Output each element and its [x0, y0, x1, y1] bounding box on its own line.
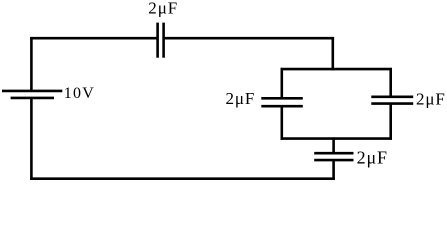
- wire bottom-cap lower (C4 to bottom wire): [332, 160, 335, 180]
- wire right branch upper: [389, 68, 392, 97]
- svg-text:10V: 10V: [64, 85, 95, 102]
- capacitor C3 2uF (right branch) bottom plate: [371, 102, 413, 105]
- capacitor C2 2uF (left branch) top plate: [261, 97, 303, 100]
- svg-text:2μF: 2μF: [148, 0, 178, 17]
- wire inner loop bottom: [281, 137, 392, 140]
- battery V1 bottom plate (short): [11, 97, 54, 100]
- wire inner loop top: [281, 68, 392, 71]
- wire bottom: [30, 177, 335, 180]
- capacitor C4 2uF (bottom) top plate: [314, 152, 353, 155]
- capacitor C4 2uF (bottom) bottom plate: [314, 159, 353, 162]
- wire bottom-cap upper (inner loop to C4): [332, 137, 335, 153]
- wire right branch lower: [389, 104, 392, 140]
- wire left branch lower: [280, 106, 283, 140]
- wire right vertical (top wire to inner loop): [331, 37, 334, 70]
- wire top-right segment: [164, 37, 335, 40]
- capacitor C1 2uF (top) right plate: [162, 23, 165, 58]
- capacitor C1 2uF (top) left plate: [156, 23, 159, 58]
- battery V1 top plate (long): [2, 90, 62, 93]
- svg-text:2μF: 2μF: [226, 89, 256, 108]
- wire left upper (to battery): [30, 37, 33, 91]
- wire left branch upper: [280, 68, 283, 98]
- wire top-left segment: [30, 37, 157, 40]
- wire left lower (battery to bottom): [30, 98, 33, 180]
- capacitor C2 2uF (left branch) bottom plate: [261, 105, 303, 108]
- svg-text:2μF: 2μF: [357, 147, 388, 167]
- capacitor C3 2uF (right branch) top plate: [371, 96, 413, 99]
- svg-text:2μF: 2μF: [416, 90, 446, 109]
